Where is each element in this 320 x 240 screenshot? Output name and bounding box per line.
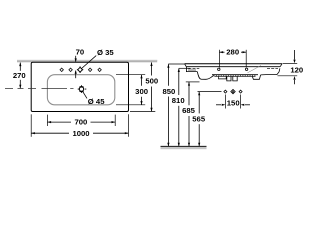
left bracket (186, 67, 197, 72)
floor line (161, 145, 207, 147)
dim 810 (178, 69, 180, 96)
tap hole diamonds (60, 68, 101, 71)
dim 280 (220, 51, 225, 53)
dim 500 extension bottom (130, 111, 155, 113)
ext 850 (168, 63, 184, 65)
floor hatch band (161, 147, 207, 149)
dim 500 (151, 63, 153, 76)
right bracket (261, 68, 280, 75)
basin outline (1000x500) (31, 62, 128, 111)
svg-text:270: 270 (13, 71, 26, 80)
dim 700 (48, 121, 71, 123)
svg-text:1000: 1000 (72, 129, 89, 138)
dim 685 (188, 82, 190, 105)
rim right cap (280, 64, 282, 67)
svg-text:565: 565 (192, 114, 206, 123)
svg-text:70: 70 (76, 47, 85, 56)
dim 270 (19, 63, 21, 71)
dim 280 extensions (218, 50, 220, 68)
bowl underside hatch band (212, 74, 258, 76)
svg-text:700: 700 (74, 118, 87, 127)
svg-text:150: 150 (227, 98, 240, 107)
dim 565 (198, 92, 200, 114)
rim left cap (185, 64, 187, 67)
svg-text:Ø 45: Ø 45 (88, 97, 105, 106)
drain outlet feet (227, 76, 237, 81)
wall hatch band (17, 60, 157, 62)
bowl underside left swoop (197, 72, 214, 80)
dim 1000 extensions (30, 114, 32, 137)
leader Ø35 (81, 56, 96, 69)
svg-text:850: 850 (162, 87, 175, 96)
rim top line (185, 63, 282, 65)
center tap hole Ø35 (77, 66, 83, 73)
ext 685 (186, 81, 200, 83)
ext 810 (179, 67, 190, 69)
fixing circles (218, 68, 220, 70)
dim 70 (back edge to tap holes) (75, 56, 77, 62)
svg-text:300: 300 (135, 87, 148, 96)
drain hole Ø45 (78, 85, 87, 93)
dim 700 extensions (46, 115, 48, 126)
dim 150 extensions (224, 95, 226, 109)
under-rim dashes (188, 68, 278, 70)
bowl outline (700x300) (47, 75, 114, 105)
dim 300 extensions (116, 74, 145, 76)
dim 120 extensions (283, 63, 298, 65)
centerline dashed (5, 88, 74, 90)
svg-text:Ø 35: Ø 35 (97, 48, 114, 57)
dim 150 (216, 104, 221, 106)
fixing hole diamonds row (224, 90, 227, 93)
dim 1000 (31, 132, 69, 134)
right step (252, 75, 260, 79)
ext 565 (198, 91, 222, 93)
overflow diagonal (248, 66, 262, 73)
svg-text:810: 810 (172, 96, 185, 105)
svg-text:500: 500 (145, 77, 158, 86)
dim 850 (167, 64, 169, 86)
svg-text:280: 280 (226, 48, 239, 57)
leader Ø45 (83, 91, 88, 98)
dim 300 (141, 75, 143, 86)
svg-text:120: 120 (290, 65, 303, 74)
left step under band (219, 76, 227, 79)
rim bottom line (186, 66, 280, 68)
dim 120 (294, 50, 296, 60)
